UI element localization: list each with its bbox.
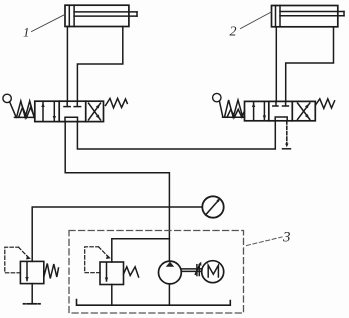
svg-text:1: 1 — [23, 25, 30, 40]
svg-text:2: 2 — [230, 25, 237, 40]
svg-text:3: 3 — [282, 230, 291, 246]
